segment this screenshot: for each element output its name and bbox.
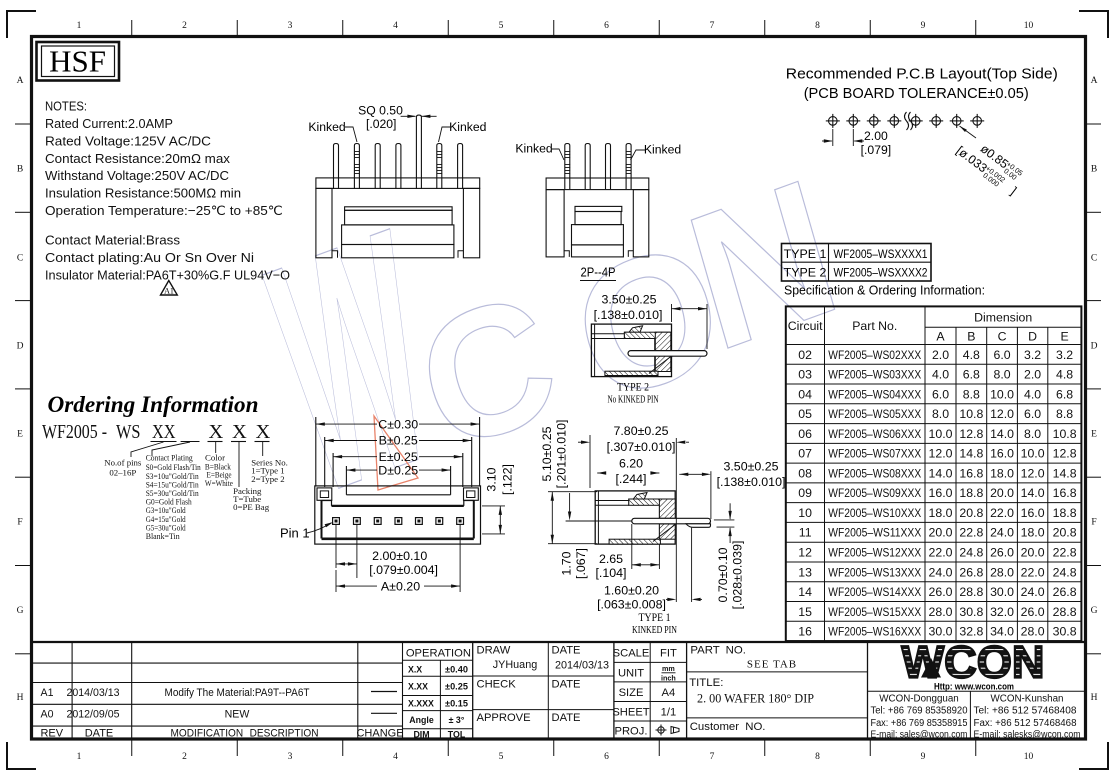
svg-text:7: 7 xyxy=(710,752,715,762)
svg-text:E: E xyxy=(17,430,23,440)
svg-text:WF2005 -: WF2005 - xyxy=(42,421,107,443)
svg-text:A4: A4 xyxy=(662,687,676,699)
svg-text:6.8: 6.8 xyxy=(963,368,980,382)
svg-text:WF2005–WS11XXX: WF2005–WS11XXX xyxy=(828,526,921,540)
svg-text:SHEET: SHEET xyxy=(612,707,649,719)
part no block xyxy=(689,645,814,734)
svg-text:Recommended P.C.B Layout(Top: Recommended P.C.B Layout(Top Side) xyxy=(786,66,1058,83)
svg-text:[.122]: [.122] xyxy=(501,464,515,495)
svg-text:CHECK: CHECK xyxy=(477,679,517,691)
svg-text:A: A xyxy=(1091,76,1098,86)
svg-text:28.0: 28.0 xyxy=(929,605,953,619)
svg-text:E: E xyxy=(1091,430,1097,440)
svg-text:4.8: 4.8 xyxy=(963,348,980,362)
svg-text:C: C xyxy=(1091,254,1097,264)
svg-text:2.0: 2.0 xyxy=(1024,368,1041,382)
svg-text:18.8: 18.8 xyxy=(1053,506,1077,520)
svg-text:Specification & Ordering In: Specification & Ordering Information: xyxy=(784,283,985,298)
svg-text:7.80±0.25: 7.80±0.25 xyxy=(613,424,668,438)
ordering legend xyxy=(104,453,288,542)
svg-text:Kinked: Kinked xyxy=(449,120,486,134)
svg-text:4.0: 4.0 xyxy=(1024,387,1041,401)
svg-text:20.0: 20.0 xyxy=(929,526,953,540)
svg-text:10.8: 10.8 xyxy=(1053,427,1077,441)
svg-text:2. 00 WAFER 180° DIP: 2. 00 WAFER 180° DIP xyxy=(697,692,814,706)
svg-text:WS: WS xyxy=(116,421,141,443)
svg-text:09: 09 xyxy=(798,486,812,500)
title block lines xyxy=(32,642,1085,739)
type1 dimension 2.65 xyxy=(595,524,659,580)
svg-text:WCON-Dongguan: WCON-Dongguan xyxy=(879,694,959,705)
svg-text:SIZE: SIZE xyxy=(619,687,644,699)
svg-text:8.0: 8.0 xyxy=(993,368,1010,382)
svg-text:0=PE Bag: 0=PE Bag xyxy=(233,502,270,512)
svg-text:CHANGE: CHANGE xyxy=(356,727,403,739)
svg-text:Insulator Material:PA6T+30%G.: Insulator Material:PA6T+30%G.F UL94V−O xyxy=(45,267,290,282)
svg-text:13: 13 xyxy=(798,565,812,579)
type1 dimension 1.60 xyxy=(597,528,702,612)
svg-text:UNIT: UNIT xyxy=(618,668,644,680)
bottom view pins xyxy=(333,518,464,525)
svg-text:1.70: 1.70 xyxy=(560,551,574,575)
svg-text:4.8: 4.8 xyxy=(1056,368,1073,382)
svg-text:16.0: 16.0 xyxy=(1021,506,1045,520)
svg-text:A0: A0 xyxy=(41,709,54,721)
svg-text:08: 08 xyxy=(798,466,812,480)
svg-text:30.0: 30.0 xyxy=(990,585,1014,599)
svg-text:26.0: 26.0 xyxy=(1021,605,1045,619)
svg-text:XX: XX xyxy=(152,421,176,443)
revision rows xyxy=(40,687,403,740)
svg-text:H: H xyxy=(1091,693,1098,703)
svg-text:10: 10 xyxy=(1024,752,1034,762)
dimension D xyxy=(346,463,450,477)
svg-text:Ordering Information: Ordering Information xyxy=(48,392,259,418)
svg-text:11: 11 xyxy=(799,526,812,540)
svg-text:20.8: 20.8 xyxy=(959,506,983,520)
svg-text:10.0: 10.0 xyxy=(929,427,953,441)
svg-text:SQ 0.50: SQ 0.50 xyxy=(358,104,403,118)
svg-text:[.079±0.004]: [.079±0.004] xyxy=(369,563,438,577)
svg-text:16.0: 16.0 xyxy=(929,486,953,500)
type1 dimension 1.70 xyxy=(560,493,589,579)
svg-text:24.0: 24.0 xyxy=(929,565,953,579)
svg-text:6.0: 6.0 xyxy=(1024,407,1041,421)
svg-text:Part No.: Part No. xyxy=(852,319,897,333)
svg-text:B: B xyxy=(17,165,23,175)
svg-text:22.8: 22.8 xyxy=(1053,546,1077,560)
svg-text:2.00±0.10: 2.00±0.10 xyxy=(372,549,427,563)
Kinked labels 7P xyxy=(308,120,486,142)
svg-text:7: 7 xyxy=(710,21,715,31)
svg-text:14.8: 14.8 xyxy=(959,447,983,461)
svg-text:NOTES:: NOTES: xyxy=(45,99,87,114)
svg-text:[.244]: [.244] xyxy=(615,472,646,486)
svg-text:6: 6 xyxy=(604,752,609,762)
svg-text:15: 15 xyxy=(798,605,812,619)
svg-text:Blank=Tin: Blank=Tin xyxy=(146,531,181,541)
svg-text:20.0: 20.0 xyxy=(990,486,1014,500)
svg-text:22.0: 22.0 xyxy=(990,506,1014,520)
dimension B xyxy=(325,434,472,448)
svg-text:2: 2 xyxy=(182,21,187,31)
svg-text:14.0: 14.0 xyxy=(1021,486,1045,500)
svg-text:2.00: 2.00 xyxy=(864,129,888,143)
svg-text:E-mail: sales@wcon.com: E-mail: sales@wcon.com xyxy=(871,730,968,741)
svg-text:2.65: 2.65 xyxy=(599,552,623,566)
pin 1 label xyxy=(280,522,334,541)
svg-text:WF2005–WS10XXX: WF2005–WS10XXX xyxy=(828,506,921,520)
svg-text:12.0: 12.0 xyxy=(929,447,953,461)
svg-text:8: 8 xyxy=(815,21,820,31)
svg-text:Contact plating:Au Or Sn O: Contact plating:Au Or Sn Over Ni xyxy=(45,250,254,265)
dimension 2.00 pitch xyxy=(336,524,438,578)
svg-text:X.X: X.X xyxy=(408,664,422,674)
svg-text:G: G xyxy=(17,606,24,616)
svg-text:18.8: 18.8 xyxy=(959,486,983,500)
svg-text:WF2005–WS09XXX: WF2005–WS09XXX xyxy=(828,486,921,500)
connector front view 4P body xyxy=(546,178,649,257)
draw/check/approve block xyxy=(477,645,610,725)
svg-text:WF2005–WSXXXX2: WF2005–WSXXXX2 xyxy=(834,266,928,280)
svg-text:3: 3 xyxy=(288,21,293,31)
contact info xyxy=(871,694,1081,741)
svg-text:1: 1 xyxy=(77,752,82,762)
svg-text:2P--4P: 2P--4P xyxy=(581,265,616,280)
svg-text:]: ] xyxy=(1008,184,1019,197)
svg-text:inch: inch xyxy=(661,673,676,682)
svg-text:24.8: 24.8 xyxy=(1053,565,1077,579)
svg-text:6.0: 6.0 xyxy=(932,387,949,401)
svg-text:14.0: 14.0 xyxy=(929,466,953,480)
svg-text:A: A xyxy=(936,330,945,344)
Kinked labels 4P xyxy=(515,142,681,161)
svg-text:WF2005–WS12XXX: WF2005–WS12XXX xyxy=(828,546,921,560)
svg-text:1.60±0.20: 1.60±0.20 xyxy=(604,584,659,598)
svg-text:6: 6 xyxy=(604,21,609,31)
svg-text:Withstand Voltage:250V AC/DC: Withstand Voltage:250V AC/DC xyxy=(45,168,229,183)
svg-text:WF2005–WSXXXX1: WF2005–WSXXXX1 xyxy=(834,247,928,261)
svg-text:A1: A1 xyxy=(41,687,54,699)
svg-text:E-mail: salesks@wcon.com: E-mail: salesks@wcon.com xyxy=(974,730,1081,741)
svg-text:A: A xyxy=(17,76,24,86)
type1 center line xyxy=(566,520,632,522)
svg-text:Rated Current:2.0AMP: Rated Current:2.0AMP xyxy=(45,116,173,131)
svg-text:32.0: 32.0 xyxy=(990,605,1014,619)
type2 pin xyxy=(628,351,707,357)
type1 dimension 7.80 xyxy=(578,424,689,488)
svg-text:8: 8 xyxy=(815,752,820,762)
svg-text:8.0: 8.0 xyxy=(1024,427,1041,441)
svg-text:WF2005–WS15XXX: WF2005–WS15XXX xyxy=(828,605,921,619)
svg-text:8.0: 8.0 xyxy=(932,407,949,421)
svg-text:SEE TAB: SEE TAB xyxy=(747,659,797,671)
svg-text:DATE: DATE xyxy=(552,645,581,657)
svg-text:TYPE 2: TYPE 2 xyxy=(784,266,827,280)
svg-text:8.8: 8.8 xyxy=(963,387,980,401)
svg-text:TITLE:: TITLE: xyxy=(689,677,723,689)
svg-text:WF2005–WS05XXX: WF2005–WS05XXX xyxy=(828,407,921,421)
svg-text:KINKED PIN: KINKED PIN xyxy=(632,625,677,636)
svg-text:6.0: 6.0 xyxy=(993,348,1010,362)
svg-text:[.307±0.010]: [.307±0.010] xyxy=(607,440,676,454)
part number breakdown xyxy=(42,421,271,443)
svg-text:WCON: WCON xyxy=(902,637,1045,688)
svg-text:06: 06 xyxy=(798,427,812,441)
svg-text:NEW: NEW xyxy=(225,709,250,721)
svg-text:12.8: 12.8 xyxy=(959,427,983,441)
svg-text:Insulation Resistance:500MΩ: Insulation Resistance:500MΩ min xyxy=(45,186,241,201)
svg-text:02–16P: 02–16P xyxy=(109,467,136,477)
watermark WCON outline xyxy=(205,21,882,566)
svg-text:0.70±0.10: 0.70±0.10 xyxy=(716,547,730,602)
svg-text:24.0: 24.0 xyxy=(990,526,1014,540)
svg-text:D: D xyxy=(17,342,24,352)
svg-text:WF2005–WS14XXX: WF2005–WS14XXX xyxy=(828,585,921,599)
svg-text:DIM: DIM xyxy=(413,729,429,739)
svg-text:Operation Temperature:−25℃ t: Operation Temperature:−25℃ to +85℃ xyxy=(45,203,283,218)
svg-text:D: D xyxy=(1091,342,1098,352)
svg-text:Customer NO.: Customer NO. xyxy=(690,721,766,733)
svg-text:16.8: 16.8 xyxy=(959,466,983,480)
type1 dimension 6.20 xyxy=(597,457,659,487)
svg-text:Kinked: Kinked xyxy=(644,143,681,157)
svg-text:07: 07 xyxy=(798,447,812,461)
svg-text:Fax: +86 512 57468468: Fax: +86 512 57468468 xyxy=(974,718,1078,729)
svg-text:16: 16 xyxy=(798,625,812,639)
svg-text:X: X xyxy=(209,421,224,443)
svg-text:X: X xyxy=(256,421,271,443)
wcon logo xyxy=(902,637,1045,693)
svg-text:WF2005–WS06XXX: WF2005–WS06XXX xyxy=(828,427,921,441)
svg-text:14: 14 xyxy=(798,585,812,599)
svg-text:SCALE: SCALE xyxy=(613,648,650,660)
svg-text:24.0: 24.0 xyxy=(1021,585,1045,599)
svg-text:18.0: 18.0 xyxy=(1021,526,1045,540)
svg-text:10: 10 xyxy=(798,506,812,520)
svg-text:1/1: 1/1 xyxy=(661,707,677,719)
svg-text:mm: mm xyxy=(662,664,675,673)
svg-text:3.10: 3.10 xyxy=(485,467,499,491)
svg-text:C: C xyxy=(998,330,1007,344)
svg-text:4: 4 xyxy=(393,21,398,31)
connector front view 4P pins xyxy=(565,144,632,190)
svg-text:2014/03/13: 2014/03/13 xyxy=(66,687,119,699)
svg-text:12: 12 xyxy=(798,546,812,560)
type1 dimension 0.70 xyxy=(714,503,745,609)
svg-text:26.0: 26.0 xyxy=(929,585,953,599)
svg-text:5: 5 xyxy=(499,752,504,762)
PCB hole size note xyxy=(953,126,1029,199)
type1 label xyxy=(632,612,677,636)
PCB layout pads xyxy=(826,112,984,130)
svg-text:±0.15: ±0.15 xyxy=(445,699,468,709)
svg-text:[.138±0.010]: [.138±0.010] xyxy=(717,475,786,489)
svg-text:12.8: 12.8 xyxy=(1053,447,1077,461)
svg-text:H: H xyxy=(17,693,24,703)
svg-text:2.0: 2.0 xyxy=(932,348,949,362)
svg-text:30.8: 30.8 xyxy=(1053,625,1077,639)
PCB layout title xyxy=(786,66,1058,102)
svg-text:WF2005–WS13XXX: WF2005–WS13XXX xyxy=(828,565,921,579)
svg-text:10: 10 xyxy=(1024,21,1034,31)
svg-text:18.0: 18.0 xyxy=(990,466,1014,480)
type1 side view body xyxy=(595,491,675,544)
svg-text:WF2005–WS04XXX: WF2005–WS04XXX xyxy=(828,387,921,401)
svg-text:26.0: 26.0 xyxy=(990,546,1014,560)
type2 dimension 3.50 xyxy=(594,293,707,350)
notes text xyxy=(45,99,290,283)
dimension A xyxy=(336,524,460,593)
svg-text:20.8: 20.8 xyxy=(1053,526,1077,540)
svg-text:WCON-Kunshan: WCON-Kunshan xyxy=(991,694,1064,705)
SQ 0.50 dimension xyxy=(358,104,436,131)
svg-text:22.0: 22.0 xyxy=(1021,565,1045,579)
svg-text:2: 2 xyxy=(182,752,187,762)
svg-text:TYPE 2: TYPE 2 xyxy=(617,382,649,394)
svg-text:X.XXX: X.XXX xyxy=(408,699,434,709)
svg-text:14.0: 14.0 xyxy=(990,427,1014,441)
svg-text:[.104]: [.104] xyxy=(595,566,626,580)
svg-text:10.8: 10.8 xyxy=(959,407,983,421)
svg-text:DATE: DATE xyxy=(552,712,581,724)
svg-text:16.0: 16.0 xyxy=(990,447,1014,461)
connector front view 7P pins xyxy=(334,115,463,189)
svg-text:B: B xyxy=(1091,165,1097,175)
svg-text:04: 04 xyxy=(798,387,812,401)
dimension E xyxy=(333,450,463,464)
svg-text:TOL: TOL xyxy=(448,729,466,739)
svg-text:B±0.25: B±0.25 xyxy=(379,434,418,448)
svg-text:16.8: 16.8 xyxy=(1053,486,1077,500)
svg-text:Angle: Angle xyxy=(409,715,434,725)
svg-text:WF2005–WS07XXX: WF2005–WS07XXX xyxy=(828,447,921,461)
svg-text:WF2005–WS02XXX: WF2005–WS02XXX xyxy=(828,348,921,362)
svg-text:Circuit: Circuit xyxy=(788,319,823,333)
svg-text:DATE: DATE xyxy=(552,679,581,691)
svg-text:WF2005–WS03XXX: WF2005–WS03XXX xyxy=(828,368,921,382)
svg-text:JYHuang: JYHuang xyxy=(493,659,537,671)
svg-text:Kinked: Kinked xyxy=(515,142,552,156)
svg-text:F: F xyxy=(1091,518,1096,528)
type1 kinked pin xyxy=(632,518,711,527)
svg-text:[.020]: [.020] xyxy=(366,117,397,131)
svg-text:F: F xyxy=(17,518,22,528)
svg-text:FIT: FIT xyxy=(660,648,677,660)
svg-text:03: 03 xyxy=(798,368,812,382)
svg-text:3.2: 3.2 xyxy=(1024,348,1041,362)
type2 label xyxy=(608,382,659,406)
svg-text:±0.40: ±0.40 xyxy=(445,664,468,674)
svg-text:2=Type 2: 2=Type 2 xyxy=(251,474,284,484)
svg-text:C: C xyxy=(17,254,23,264)
svg-text:1: 1 xyxy=(77,21,82,31)
svg-text:2012/09/05: 2012/09/05 xyxy=(66,709,119,721)
svg-text:Tel: +86 512 57468408: Tel: +86 512 57468408 xyxy=(974,706,1078,717)
svg-text:Contact Material:Brass: Contact Material:Brass xyxy=(45,233,180,248)
svg-text:02: 02 xyxy=(798,348,812,362)
svg-text:Kinked: Kinked xyxy=(308,120,345,134)
svg-text:12.0: 12.0 xyxy=(1021,466,1045,480)
svg-text:8.8: 8.8 xyxy=(1056,407,1073,421)
svg-text:E±0.25: E±0.25 xyxy=(379,450,418,464)
bottom view body xyxy=(315,417,481,544)
svg-text:Pin 1: Pin 1 xyxy=(280,526,310,541)
svg-text:28.8: 28.8 xyxy=(959,585,983,599)
svg-text:[.079]: [.079] xyxy=(861,143,892,157)
svg-text:B: B xyxy=(967,330,975,344)
svg-text:A±0.20: A±0.20 xyxy=(381,579,420,593)
svg-text:X.XX: X.XX xyxy=(408,682,428,692)
svg-text:26.8: 26.8 xyxy=(1053,585,1077,599)
dimension C xyxy=(316,417,480,431)
svg-text:3.2: 3.2 xyxy=(1056,348,1073,362)
svg-text:DRAW: DRAW xyxy=(477,645,511,657)
svg-text:6.20: 6.20 xyxy=(619,457,643,471)
svg-text:G: G xyxy=(1091,606,1098,616)
svg-text:(PCB BOARD TOLERANCE±0.05): (PCB BOARD TOLERANCE±0.05) xyxy=(804,85,1029,102)
svg-text:5: 5 xyxy=(499,21,504,31)
revision triangle A1 xyxy=(161,281,178,296)
svg-text:D: D xyxy=(1028,330,1037,344)
svg-text:C±0.30: C±0.30 xyxy=(378,417,418,431)
svg-text:10.0: 10.0 xyxy=(990,387,1014,401)
svg-text:3: 3 xyxy=(288,752,293,762)
svg-text:9: 9 xyxy=(921,21,926,31)
svg-text:Dimension: Dimension xyxy=(974,311,1032,325)
svg-text:± 3°: ± 3° xyxy=(449,715,465,725)
PCB pitch dimension 2.00 xyxy=(822,129,891,157)
svg-text:DATE: DATE xyxy=(85,727,114,739)
svg-text:26.8: 26.8 xyxy=(959,565,983,579)
svg-text:Http: www.wcon.com: Http: www.wcon.com xyxy=(934,682,1014,693)
svg-text:2014/03/13: 2014/03/13 xyxy=(555,660,609,672)
svg-text:Modify The Material:PA9T--PA: Modify The Material:PA9T--PA6T xyxy=(165,687,310,699)
operation table text xyxy=(406,647,471,739)
svg-text:Rated Voltage:125V AC/DC: Rated Voltage:125V AC/DC xyxy=(45,133,211,148)
type1 dimension 3.50 xyxy=(676,438,785,602)
svg-text:28.8: 28.8 xyxy=(1053,605,1077,619)
svg-text:05: 05 xyxy=(798,407,812,421)
svg-text:Fax: +86 769 85358915: Fax: +86 769 85358915 xyxy=(871,718,969,729)
svg-text:A1: A1 xyxy=(164,287,174,296)
scale block xyxy=(612,648,679,738)
svg-text:WF2005–WS08XXX: WF2005–WS08XXX xyxy=(828,466,921,480)
2P--4P label xyxy=(580,265,616,281)
svg-text:20.0: 20.0 xyxy=(1021,546,1045,560)
svg-text:PART NO.: PART NO. xyxy=(690,645,746,657)
svg-text:22.8: 22.8 xyxy=(959,526,983,540)
dimension 3.10 xyxy=(482,464,515,534)
watermark orange triangle xyxy=(374,416,418,490)
type2 side view body xyxy=(591,324,671,377)
svg-text:[.028±0.039]: [.028±0.039] xyxy=(731,541,745,610)
svg-text:±0.25: ±0.25 xyxy=(445,682,468,692)
svg-text:Contact Plating: Contact Plating xyxy=(146,453,194,463)
svg-text:HSF: HSF xyxy=(49,44,106,79)
svg-text:TYPE 1: TYPE 1 xyxy=(639,612,671,624)
dimension table xyxy=(786,306,1082,641)
svg-text:PROJ.: PROJ. xyxy=(615,726,648,738)
svg-text:9: 9 xyxy=(921,752,926,762)
svg-text:REV: REV xyxy=(40,727,63,739)
svg-text:Contact Resistance:20mΩ max: Contact Resistance:20mΩ max xyxy=(45,151,230,166)
svg-text:30.8: 30.8 xyxy=(959,605,983,619)
svg-text:24.8: 24.8 xyxy=(959,546,983,560)
svg-text:22.0: 22.0 xyxy=(929,546,953,560)
svg-text:OPERATION: OPERATION xyxy=(406,647,471,659)
type table xyxy=(782,244,932,282)
